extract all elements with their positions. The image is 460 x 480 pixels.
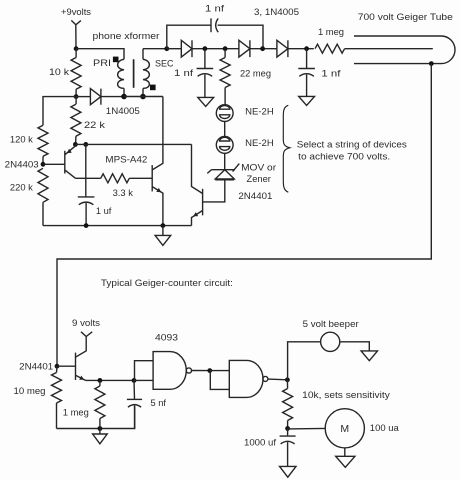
svg-text:Select a string of devices: Select a string of devices (297, 139, 407, 149)
svg-text:+9volts: +9volts (61, 7, 91, 17)
resistor R 22 meg (224, 49, 226, 58)
svg-text:1 nf: 1 nf (205, 3, 225, 13)
node cap1 tee (203, 46, 208, 51)
resistor R 22k (75, 97, 77, 105)
ground meter (344, 448, 346, 456)
ground beeper (361, 351, 377, 361)
gate U1A 4093 bubble (186, 368, 191, 373)
wire gate2 out (268, 378, 288, 381)
ground main (162, 226, 164, 236)
capacitor C 1uf (85, 144, 87, 196)
resistor R 1 meg HV (315, 44, 345, 53)
diode D 1N4005 primary (76, 96, 90, 98)
svg-text:9 volts: 9 volts (72, 318, 100, 328)
node Q3 base (55, 364, 60, 369)
svg-text:NE-2H: NE-2H (245, 106, 273, 116)
svg-text:1 meg: 1 meg (63, 407, 89, 417)
neon lamp NE-2H lower (216, 137, 233, 154)
meter M1 100ua (325, 409, 364, 448)
node gate2 input (207, 368, 212, 373)
gate U1A 4093 input bracket (135, 361, 154, 381)
node 1uf ground (84, 223, 89, 228)
transformer T1 core (133, 59, 135, 88)
svg-text:2N4403: 2N4403 (5, 159, 39, 169)
ground below C 1nf right (299, 96, 315, 105)
svg-text:Typical Geiger-counter circuit: Typical Geiger-counter circuit: (101, 278, 233, 288)
transistor Q 2N4401 lower (57, 365, 76, 367)
capacitor C 1000uf (287, 429, 289, 436)
resistor R 3.3k (101, 174, 130, 183)
supply 9 volts symbol (81, 332, 86, 337)
node gate2 output (285, 377, 290, 382)
svg-text:22 k: 22 k (84, 120, 105, 130)
wire junction to left rail (43, 97, 76, 126)
svg-text:to achieve 700 volts.: to achieve 700 volts. (298, 152, 390, 162)
transistor Q MPS-A42 (151, 165, 153, 191)
svg-text:1 uf: 1 uf (96, 206, 112, 216)
gate U1B 4093 body (229, 360, 263, 397)
svg-text:2N4401: 2N4401 (19, 361, 53, 371)
svg-text:10k, sets sensitivity: 10k, sets sensitivity (302, 390, 390, 400)
resistor R 10 meg (56, 366, 59, 372)
capacitor C 1nf left (204, 49, 206, 69)
diode D1 multiplier (181, 40, 192, 57)
wire transformer bottom (124, 96, 143, 98)
wire secondary top (143, 48, 167, 50)
node 9V rail junction (74, 46, 79, 51)
node 5nf top (132, 378, 137, 383)
brace select devices (283, 105, 290, 192)
transistor Q 2N4403 (43, 163, 65, 165)
svg-text:22 meg: 22 meg (240, 68, 271, 78)
wire 9V rail to transformer (76, 49, 124, 60)
svg-text:Zener: Zener (247, 174, 271, 184)
node 1meg bottom (98, 426, 103, 431)
diode D3 multiplier (277, 40, 288, 57)
svg-text:10 meg: 10 meg (14, 386, 46, 396)
transformer phase dot secondary (150, 85, 156, 91)
svg-text:2N4401: 2N4401 (238, 191, 272, 201)
svg-text:1 meg: 1 meg (318, 27, 344, 37)
resistor R 220k (38, 168, 48, 202)
wire anode (345, 48, 433, 50)
wire cathode down and across (57, 64, 431, 367)
wire lower ground rail (57, 406, 135, 428)
capacitor C 5nf (133, 380, 136, 399)
svg-text:3.3 k: 3.3 k (113, 188, 134, 198)
wire to beeper (288, 342, 321, 380)
wire emitter out (86, 379, 135, 381)
transformer T1 secondary winding (143, 59, 149, 88)
svg-text:phone xformer: phone xformer (93, 31, 160, 41)
wire ground rail (43, 225, 192, 227)
svg-text:MPS-A42: MPS-A42 (105, 155, 147, 165)
wire between lamps (224, 122, 226, 137)
node emitter junction (73, 142, 78, 147)
wire collector to 3.3k (76, 177, 101, 179)
node divider junction (74, 94, 79, 99)
transformer T1 primary winding (118, 59, 124, 88)
transformer phase dot primary (113, 57, 119, 63)
diode D2 multiplier (239, 40, 250, 57)
ground below C 1nf left (198, 97, 214, 106)
resistor R 10k sensitivity (286, 380, 288, 389)
wire feedback rail (75, 143, 191, 145)
node emitter ground (161, 223, 166, 228)
svg-text:120 k: 120 k (10, 134, 33, 144)
ground 1000uf (280, 466, 296, 477)
svg-text:1000 uf: 1000 uf (244, 438, 276, 448)
gate U1A 4093 body (153, 352, 186, 390)
node Q2 base (41, 162, 46, 167)
resistor R 1 meg lower (99, 380, 101, 386)
wire HV rail (167, 48, 182, 50)
neon lamp NE-2H upper (216, 105, 233, 122)
svg-text:SEC: SEC (155, 59, 174, 69)
transistor Q 2N4401 top (202, 189, 204, 216)
svg-text:MOV or: MOV or (241, 162, 276, 172)
wire MOV to Q base (203, 180, 225, 202)
resistor R 120k (38, 125, 48, 156)
svg-text:1 nf: 1 nf (321, 68, 341, 78)
svg-text:3, 1N4005: 3, 1N4005 (254, 7, 299, 17)
resistor R 10k (75, 49, 77, 58)
svg-text:5 volt beeper: 5 volt beeper (303, 319, 359, 329)
svg-text:220 k: 220 k (10, 183, 33, 193)
node 22meg tee (223, 46, 228, 51)
node output tee (304, 46, 309, 51)
wire 3.3k to base (129, 177, 152, 179)
wire lamp to MOV (224, 153, 226, 169)
svg-text:M: M (340, 423, 349, 435)
svg-text:100 ua: 100 ua (370, 423, 400, 433)
wire to meter (288, 427, 326, 430)
node sec top tee (164, 46, 169, 51)
node transformer bottom left (121, 94, 127, 100)
svg-text:4093: 4093 (155, 332, 178, 342)
power +9volts symbol (71, 20, 76, 24)
node cap 1uf top (83, 142, 88, 147)
node cap loop right tee (260, 46, 265, 51)
wire gate1 out (192, 370, 210, 372)
capacitor C 1nf right (306, 49, 308, 69)
svg-text:NE-2H: NE-2H (245, 138, 273, 148)
node 1meg top (98, 378, 103, 383)
beeper B1 5 volt (321, 332, 340, 351)
svg-text:5 nf: 5 nf (151, 398, 167, 408)
node tube cathode (429, 61, 434, 66)
svg-text:1 nf: 1 nf (174, 68, 194, 78)
ground lower left (99, 429, 101, 435)
svg-text:700 volt Geiger Tube: 700 volt Geiger Tube (358, 12, 453, 22)
wire beeper to ground (340, 342, 370, 351)
capacitor C 1nf top (167, 25, 211, 49)
geiger tube envelope (354, 36, 455, 64)
svg-text:1N4005: 1N4005 (106, 106, 140, 116)
MOV or Zener device (212, 169, 236, 171)
svg-text:10 k: 10 k (49, 67, 69, 77)
node meter tee (285, 426, 290, 431)
node transformer bottom right (140, 94, 146, 100)
gate U1B 4093 input bracket (210, 370, 230, 372)
svg-text:PRI: PRI (93, 58, 111, 68)
gate U1B 4093 bubble (263, 376, 268, 381)
